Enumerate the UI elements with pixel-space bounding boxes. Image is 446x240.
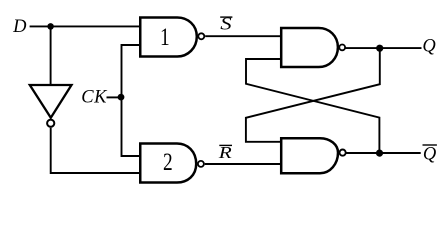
- bubble U1: [198, 33, 204, 39]
- bubble U3: [339, 45, 345, 51]
- node Q junction: [376, 45, 383, 52]
- svg-text:R: R: [218, 144, 232, 163]
- inverter triangle: [30, 85, 72, 118]
- wire S-bar net: [205, 35, 281, 37]
- wire Qbar feedback to gate3 input 2: [246, 59, 379, 153]
- svg-text:Q: Q: [423, 145, 437, 165]
- wire CK stub: [107, 96, 122, 98]
- nand gate U3: [281, 28, 338, 67]
- wire Q output: [345, 47, 421, 49]
- wire Q feedback to gate4 input 1: [246, 48, 380, 142]
- svg-text:1: 1: [160, 23, 170, 51]
- bubble U4: [340, 150, 346, 156]
- nand gate U2: [140, 144, 196, 183]
- wire CK vertical with branches to gate1 in2 and gate2 in1: [122, 45, 141, 156]
- svg-text:K: K: [93, 88, 108, 108]
- svg-text:2: 2: [163, 147, 173, 175]
- node Qbar junction: [376, 150, 383, 157]
- svg-text:C: C: [81, 88, 94, 108]
- node D junction: [47, 23, 54, 30]
- svg-text:S: S: [220, 15, 231, 34]
- nand gate U4: [281, 138, 338, 173]
- node CK junction: [118, 94, 125, 101]
- wire D input: [30, 25, 140, 27]
- wire inverter output to gate 2 input 2: [51, 128, 140, 173]
- bubble U2: [198, 161, 204, 167]
- wire Qbar output: [346, 152, 421, 154]
- nand gate U1: [140, 18, 197, 57]
- svg-text:D: D: [12, 17, 27, 37]
- wire D to inverter: [50, 26, 52, 86]
- inverter bubble: [47, 120, 54, 127]
- wire R-bar net: [205, 163, 282, 165]
- svg-text:Q: Q: [422, 36, 436, 56]
